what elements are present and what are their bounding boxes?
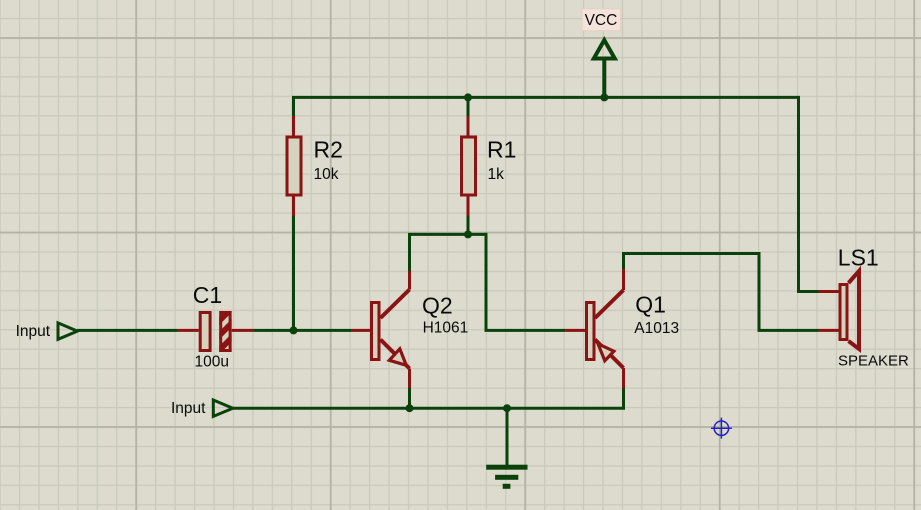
resistor R1 — [462, 116, 476, 216]
wire R2 top stub — [292, 97, 295, 116]
junction C1 R2 Q2 node — [290, 326, 298, 334]
wire R2 bottom to input node — [292, 216, 295, 330]
label Input top — [16, 323, 51, 340]
svg-text:H1061: H1061 — [423, 319, 469, 336]
label R1 value 1k — [488, 166, 505, 183]
capacitor C1 — [177, 311, 254, 352]
label VCC text — [585, 12, 618, 29]
wire VCC stem — [602, 59, 606, 98]
svg-text:A1013: A1013 — [634, 320, 679, 337]
svg-text:R1: R1 — [487, 137, 516, 163]
wire C1 to node — [254, 329, 294, 332]
svg-text:Q1: Q1 — [635, 292, 666, 318]
origin marker crosshair — [711, 418, 732, 439]
svg-text:1k: 1k — [488, 166, 505, 183]
svg-text:C1: C1 — [193, 282, 222, 308]
label Q2 ref — [422, 293, 453, 319]
wire R1 top stub — [467, 97, 470, 116]
svg-text:Q2: Q2 — [422, 293, 453, 319]
label VCC background — [582, 9, 621, 31]
wire R1 bottom stub — [467, 216, 470, 234]
wire top power rail — [292, 96, 799, 99]
label LS1 value SPEAKER — [838, 353, 909, 370]
ground symbol — [486, 408, 527, 489]
wire mid rail Q2 collector node — [408, 233, 488, 236]
terminal Input bottom — [213, 400, 233, 416]
junction ground on bottom rail — [503, 404, 511, 412]
wire bottom rail — [233, 407, 625, 410]
svg-text:R2: R2 — [314, 137, 343, 163]
terminal Input top — [58, 323, 77, 339]
wire right drop to speaker top — [799, 96, 819, 292]
wire Q1 collector stub — [622, 254, 625, 270]
wire Q1 collector to right — [622, 252, 759, 255]
label R2 value 10k — [314, 166, 339, 183]
label Q2 value H1061 — [423, 319, 469, 336]
resistor R2 — [287, 116, 301, 216]
label R2 ref — [314, 137, 343, 163]
svg-text:LS1: LS1 — [838, 245, 879, 271]
junction R1 top on rail — [464, 93, 472, 101]
svg-text:10k: 10k — [314, 166, 339, 183]
label Input bottom — [171, 400, 206, 417]
junction R1 bottom on mid rail — [464, 230, 472, 238]
label C1 ref — [193, 282, 222, 308]
label Q1 value A1013 — [634, 320, 679, 337]
svg-text:100u: 100u — [195, 354, 229, 371]
label R1 ref — [487, 137, 516, 163]
label LS1 ref — [838, 245, 879, 271]
wire node to Q2 base — [294, 329, 352, 332]
junction VCC on rail — [600, 93, 608, 101]
wire Q1 emitter stub — [622, 388, 625, 408]
transistor Q1 — [565, 269, 623, 388]
wire Q2 emitter stub — [408, 388, 411, 408]
junction Q2 emitter on bottom rail — [406, 404, 414, 412]
transistor Q2 — [351, 271, 410, 388]
svg-text:VCC: VCC — [585, 12, 618, 29]
wire drop to speaker bottom — [759, 252, 819, 330]
svg-text:SPEAKER: SPEAKER — [838, 353, 909, 370]
label Q1 ref — [635, 292, 666, 318]
label C1 value 100u — [195, 354, 229, 371]
wire drop to Q1 base — [486, 233, 565, 331]
svg-text:Input: Input — [171, 400, 206, 417]
wire input to C1 — [77, 329, 177, 332]
wire Q2 collector stub — [408, 234, 411, 271]
power VCC symbol — [594, 40, 615, 59]
speaker LS1 — [819, 271, 860, 349]
svg-text:Input: Input — [16, 323, 51, 340]
